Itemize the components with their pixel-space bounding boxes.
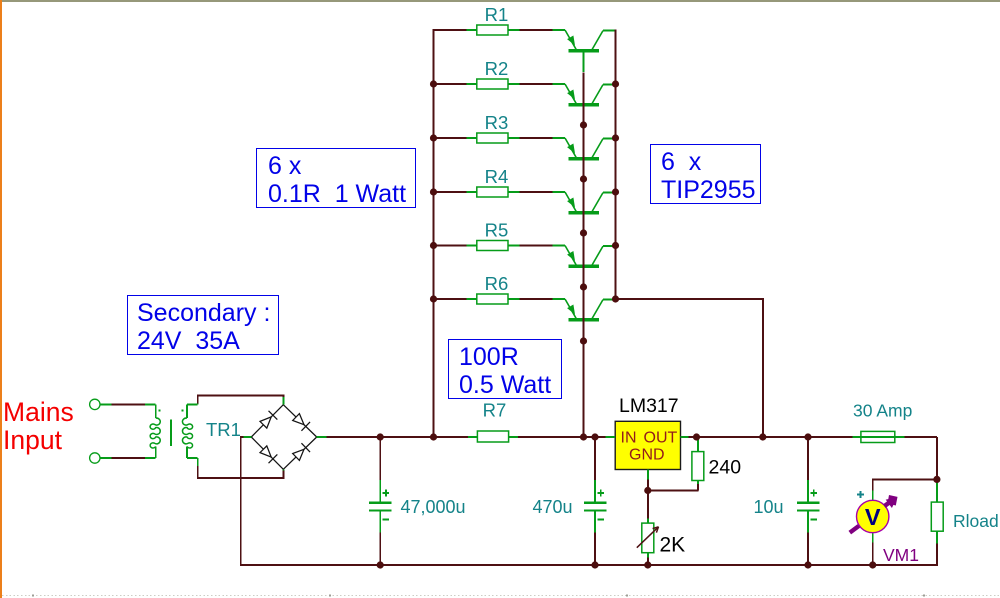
wire Rload to bottom rail <box>936 544 938 566</box>
resistor R2 <box>466 79 520 89</box>
annotation box 6x TIP2955 <box>650 144 761 204</box>
top window border <box>0 0 1000 2</box>
svg-text:IN: IN <box>621 430 637 447</box>
wire fuse to Rload branch <box>936 437 938 479</box>
wire row 5 left segment <box>433 245 467 247</box>
transistor Q5 TIP2955 <box>552 246 616 268</box>
junction dots left bus <box>430 80 437 440</box>
wire row 4 right segment <box>520 191 553 193</box>
annotation box Secondary 24V 35A <box>127 295 279 355</box>
resistor R5 <box>466 241 520 251</box>
transistor Q4 TIP2955 <box>552 192 616 214</box>
mains input terminal bottom <box>90 453 112 463</box>
wire secondary bottom to bridge <box>198 466 284 478</box>
transformer TR1 primary winding <box>145 404 160 458</box>
junction dots positive rail <box>377 433 812 440</box>
voltmeter needle arrow <box>850 495 898 533</box>
capacitor C3 10u <box>797 479 820 533</box>
svg-text:240: 240 <box>709 457 742 479</box>
wire row 2 left segment <box>433 83 467 85</box>
transistor Q2 TIP2955 <box>552 84 616 106</box>
transistor Q1 TIP2955 <box>552 30 616 72</box>
svg-text:Rload: Rload <box>953 511 999 531</box>
wire voltmeter to bottom rail <box>872 543 874 566</box>
page boundary dotted line <box>2 595 1000 597</box>
svg-text:10u: 10u <box>753 497 783 517</box>
wire pot to bottom rail <box>647 558 649 566</box>
svg-text:Mains: Mains <box>3 397 74 427</box>
voltmeter VM1 body <box>857 490 889 543</box>
mains input terminal top <box>90 399 112 409</box>
bridge pin stubs <box>243 396 327 478</box>
wire row 6 right segment <box>520 298 553 300</box>
left window border <box>0 0 2 598</box>
svg-text:TR1: TR1 <box>206 419 241 440</box>
resistor R3 <box>466 133 520 143</box>
wire row 4 left segment <box>433 191 467 193</box>
resistor 240 ohm <box>692 437 704 485</box>
wire row 1 left segment <box>433 29 467 31</box>
svg-text:R3: R3 <box>485 112 509 133</box>
junction dot voltmeter branch <box>933 476 940 483</box>
svg-text:Input: Input <box>3 425 63 455</box>
wire positive rail <box>327 436 468 438</box>
bridge diode D4 (bottom to right) <box>283 437 316 469</box>
wire row 6 left segment <box>433 298 467 300</box>
svg-text:30 Amp: 30 Amp <box>853 401 912 421</box>
wire collector bus <box>615 30 617 299</box>
junction dots bottom rail <box>377 561 877 568</box>
LM317 pin stubs <box>605 437 689 480</box>
resistor R1 <box>466 25 520 35</box>
resistor R4 <box>466 187 520 197</box>
transistor Q3 TIP2955 <box>552 138 616 160</box>
wire row 5 right segment <box>520 245 553 247</box>
svg-text:GND: GND <box>629 447 665 464</box>
regulator U1 LM317 body <box>615 421 680 469</box>
wire row 3 left segment <box>433 137 467 139</box>
wire capacitor C3 leads <box>807 437 809 480</box>
resistor Rload <box>931 479 943 544</box>
svg-text:R2: R2 <box>485 58 509 79</box>
svg-text:R1: R1 <box>485 4 509 25</box>
bridge diode D3 (left to bottom) <box>251 437 283 469</box>
transformer TR1 secondary winding <box>182 396 197 468</box>
transistor Q6 TIP2955 <box>552 299 616 321</box>
wire mains to primary bottom <box>112 457 146 459</box>
wire collector bus to output node <box>616 299 763 437</box>
wire base bus <box>583 72 585 437</box>
svg-text:R6: R6 <box>485 273 509 294</box>
wire capacitor C2 leads <box>594 437 596 480</box>
voltmeter plus mark <box>857 491 864 498</box>
resistor R7 <box>468 431 519 442</box>
svg-text:R7: R7 <box>483 400 507 421</box>
fuse F1 30 Amp <box>852 431 905 442</box>
wire secondary top to bridge <box>198 396 284 404</box>
wire mains to primary top <box>112 403 146 405</box>
junction dots base bus <box>580 121 587 440</box>
wire left resistor bus <box>433 29 435 437</box>
wire voltmeter branch <box>873 478 938 480</box>
wire row 2 right segment <box>520 83 553 85</box>
wire row 3 right segment <box>520 137 553 139</box>
capacitor C2 470u <box>584 479 607 533</box>
junction dots collector bus <box>612 80 619 302</box>
svg-text:R4: R4 <box>485 166 509 187</box>
svg-text:VM1: VM1 <box>883 545 919 565</box>
bridge diode D1 (left to top) <box>251 405 283 437</box>
svg-text:2K: 2K <box>660 534 686 557</box>
annotation box 6x 0.1R 1 Watt <box>256 148 416 208</box>
transformer phase dots <box>159 410 184 412</box>
transformer TR1 core <box>170 420 172 446</box>
capacitor C1 47,000u <box>369 479 392 533</box>
svg-text:47,000u: 47,000u <box>401 497 466 517</box>
resistor R6 <box>466 294 520 304</box>
wire bottom rail <box>240 564 937 566</box>
wire row 1 right segment <box>520 29 553 31</box>
annotation box 100R 0.5 Watt <box>448 339 562 399</box>
bridge diode D2 (top to right) <box>283 405 316 437</box>
svg-text:470u: 470u <box>532 497 572 517</box>
svg-text:LM317: LM317 <box>619 395 679 417</box>
svg-text:OUT: OUT <box>644 430 678 447</box>
junction dot adj node <box>644 487 651 494</box>
wire bridge negative to bottom rail <box>241 437 244 565</box>
wire LM317 adj network <box>647 480 649 519</box>
potentiometer 2K <box>637 518 659 558</box>
wire capacitor C1 leads <box>379 437 381 480</box>
svg-text:R5: R5 <box>485 220 509 241</box>
svg-text:V: V <box>865 504 881 530</box>
